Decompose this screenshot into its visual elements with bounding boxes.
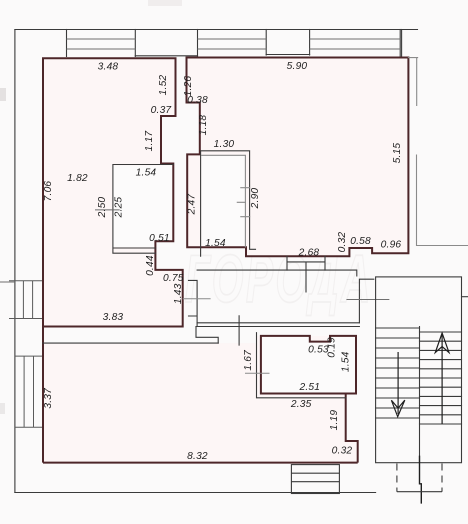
corridor to stairs opening (347, 299, 389, 301)
apartment 3 top wall (43, 342, 219, 344)
svg-text:2.50: 2.50 (97, 197, 108, 219)
svg-text:2.68: 2.68 (298, 248, 320, 259)
pier d bottom (266, 54, 309, 56)
apartment 2 interior tint (187, 58, 409, 257)
bathroom 2 interior white (262, 337, 355, 393)
svg-text:5.15: 5.15 (392, 143, 403, 164)
kitchen interior white (202, 155, 246, 247)
dimension tick 2.50 (95, 209, 120, 211)
pier edge d (265, 30, 267, 56)
window T3 lines (310, 39, 401, 49)
corridor left wall with ticks (189, 280, 198, 326)
watermark logo square (52, 242, 104, 310)
pier edge c (197, 30, 199, 57)
stair center wall (419, 327, 421, 463)
corridor top wall (197, 270, 357, 276)
corridor bottom wall (196, 323, 359, 327)
svg-text:2.47: 2.47 (187, 194, 198, 216)
apartment 3 right wall jogs (346, 394, 358, 463)
window T1 lines (67, 39, 136, 49)
svg-text:1.26: 1.26 (183, 76, 194, 97)
pier edge a (66, 30, 68, 57)
svg-text:2.90: 2.90 (250, 188, 261, 210)
apartment 2 wall outline (187, 58, 409, 257)
dimension tick 1.43 (183, 298, 211, 300)
stair window right (462, 296, 468, 298)
window T2 lines (198, 39, 267, 49)
svg-text:1.67: 1.67 (243, 350, 254, 371)
svg-text:1.30: 1.30 (214, 139, 235, 150)
svg-text:0.96: 0.96 (381, 240, 402, 251)
stair arrow down (391, 352, 404, 417)
pier edge g top right (401, 30, 403, 58)
kitchen box inner (202, 155, 246, 247)
window W2 left wall (15, 356, 44, 427)
stair block outline (376, 277, 462, 463)
left edge tick (0, 281, 15, 283)
svg-text:2.25: 2.25 (114, 197, 125, 219)
corridor right wall (359, 279, 373, 323)
svg-text:0.19: 0.19 (326, 337, 337, 358)
stair arrow up (435, 333, 449, 424)
apartment 1 wall outline (43, 58, 183, 326)
svg-text:0.32: 0.32 (332, 446, 353, 457)
svg-text:0.51: 0.51 (149, 233, 170, 244)
pier edge b (134, 30, 136, 57)
svg-text:0.75: 0.75 (163, 273, 184, 284)
outer wall top (15, 29, 418, 31)
porch bottom line (397, 491, 442, 493)
svg-text:3.37: 3.37 (43, 388, 54, 409)
window W1 left wall (9, 281, 43, 319)
entrance steps bottom (291, 465, 339, 494)
svg-text:1.54: 1.54 (136, 168, 157, 179)
pier b bottom (135, 55, 197, 57)
hatch to apartment 2 (287, 256, 325, 292)
outer wall bottom (15, 492, 376, 494)
paper edge marks (0, 88, 6, 101)
svg-text:1.54: 1.54 (205, 238, 226, 249)
window lines top wall (67, 39, 401, 49)
svg-text:0.32: 0.32 (337, 232, 348, 253)
svg-text:3.83: 3.83 (103, 312, 124, 323)
apartment 3 entry step (196, 327, 218, 344)
pier edge e (309, 30, 311, 56)
svg-text:0.44: 0.44 (145, 255, 156, 276)
svg-text:2.35: 2.35 (290, 399, 312, 410)
svg-text:1.19: 1.19 (329, 410, 340, 431)
svg-text:0.37: 0.37 (151, 105, 172, 116)
stair treads left flight (376, 328, 420, 418)
stair section cut line (420, 456, 422, 504)
svg-text:1.54: 1.54 (341, 351, 352, 372)
svg-text:8.32: 8.32 (187, 451, 208, 462)
apartment 3 left wall (42, 327, 44, 463)
porch dashed sides (396, 464, 398, 492)
svg-text:0.58: 0.58 (350, 236, 371, 247)
bathroom 2 black faces (257, 333, 346, 398)
bathroom 2 red box with vent notch (261, 336, 356, 394)
svg-text:0.38: 0.38 (187, 95, 208, 106)
svg-text:1.17: 1.17 (144, 131, 155, 152)
svg-text:2.51: 2.51 (298, 382, 320, 393)
apartment 3 bottom wall (43, 462, 358, 464)
svg-text:1.18: 1.18 (198, 115, 209, 136)
svg-text:7.06: 7.06 (43, 181, 54, 202)
svg-text:1.52: 1.52 (158, 75, 169, 96)
kitchen door ticks (237, 188, 249, 217)
apartment 3 interior tint (43, 336, 358, 463)
svg-text:5.90: 5.90 (287, 61, 308, 72)
door tick to apartment 3 (238, 316, 240, 345)
outer wall left (14, 30, 16, 493)
svg-text:1.82: 1.82 (67, 173, 88, 184)
pier edge f (399, 30, 401, 58)
kitchen box outer (201, 151, 256, 256)
dimension tick 1.67 (245, 372, 270, 374)
svg-text:3.48: 3.48 (98, 62, 119, 73)
apartment 1 interior tint (43, 58, 183, 326)
bathroom 1 box (113, 165, 173, 254)
stair treads right flight (420, 332, 462, 424)
right side contour line (408, 58, 468, 246)
bathroom 1 interior white (114, 166, 173, 248)
svg-text:1.43: 1.43 (173, 283, 184, 304)
